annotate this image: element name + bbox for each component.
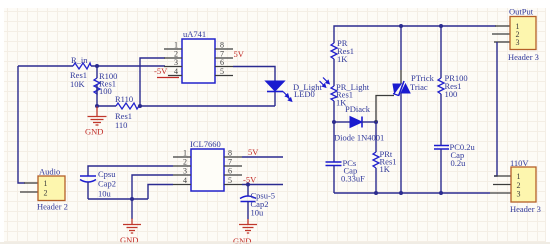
wire output to 110V pin1 bbox=[494, 42, 497, 176]
wire PRt top bbox=[375, 122, 377, 152]
resistor PR_Light photoresistor bbox=[331, 86, 337, 101]
svg-text:3: 3 bbox=[174, 58, 178, 67]
svg-text:Header 3: Header 3 bbox=[510, 204, 541, 214]
triac gate wire bbox=[376, 96, 394, 123]
svg-text:6: 6 bbox=[220, 58, 224, 67]
pin 2 line 110V bbox=[493, 184, 511, 186]
pin 4 line bbox=[168, 75, 182, 77]
wire triac MT2 bbox=[400, 26, 402, 70]
pin 7 stub bbox=[224, 165, 242, 167]
pin 6 line bbox=[215, 66, 233, 68]
pin 1 line OutPut bbox=[495, 25, 510, 27]
wire PR_Light to diode node bbox=[333, 101, 335, 162]
ground GND bottom left bbox=[131, 199, 133, 219]
pin 8 stub bbox=[215, 48, 233, 50]
svg-text:3: 3 bbox=[517, 190, 521, 199]
pin 1 line 110V bbox=[494, 175, 511, 177]
wire PRt bottom bbox=[375, 168, 377, 193]
node junction PRt bottom bbox=[374, 191, 378, 195]
pin 2 line bbox=[173, 165, 191, 167]
svg-text:10K: 10K bbox=[70, 79, 86, 89]
svg-text:Cpsu: Cpsu bbox=[98, 169, 116, 179]
resistor R_in bbox=[73, 63, 91, 69]
pin 1 stub bbox=[164, 48, 182, 50]
svg-text:Cap2: Cap2 bbox=[98, 179, 116, 189]
pin 3 line bbox=[173, 174, 191, 176]
svg-text:5V: 5V bbox=[234, 49, 245, 59]
ground GND under Cpsu-5 bbox=[239, 219, 257, 233]
svg-text:Header 2: Header 2 bbox=[37, 202, 68, 212]
pin 1 line Audio bbox=[24, 182, 38, 184]
node junction gnd bottom bbox=[130, 197, 134, 201]
svg-text:Diode 1N4001: Diode 1N4001 bbox=[334, 133, 384, 143]
svg-text:GND: GND bbox=[85, 127, 103, 137]
capacitor PCs bbox=[326, 162, 342, 193]
wire pin6 output to LED bbox=[233, 67, 275, 82]
connector 110V Header 3 bbox=[511, 167, 536, 202]
resistor R100 bbox=[94, 78, 100, 94]
node junction diode left bbox=[332, 120, 336, 124]
triac PTrick bbox=[393, 81, 410, 96]
ground GND under R100 bbox=[88, 107, 107, 126]
pin 2 line Audio bbox=[20, 191, 38, 193]
node junction -5V cap bbox=[246, 183, 250, 187]
svg-text:10u: 10u bbox=[98, 189, 112, 199]
resistor PR bbox=[331, 43, 337, 59]
svg-text:ICL7660: ICL7660 bbox=[190, 139, 221, 149]
wire PR to PR_Light bbox=[333, 59, 335, 86]
capacitor PC0.2u bbox=[434, 146, 449, 194]
svg-text:1: 1 bbox=[44, 179, 48, 188]
wire R100 top stub bbox=[96, 66, 98, 78]
wire R100 bottom to R110 bbox=[97, 105, 116, 107]
wire 5V net bbox=[242, 156, 283, 158]
svg-text:Header 3: Header 3 bbox=[508, 52, 539, 62]
wire feedback vertical to pin2 bbox=[140, 58, 165, 106]
capacitor Cpsu-5 bbox=[240, 185, 256, 220]
pin 6 stub bbox=[224, 174, 242, 176]
resistor R110 bbox=[116, 103, 139, 109]
svg-text:5: 5 bbox=[228, 176, 232, 185]
svg-text:8: 8 bbox=[220, 41, 224, 50]
capacitor Cpsu bbox=[80, 166, 173, 199]
wire bottom net Cpsu to pin4 corner bbox=[88, 198, 148, 200]
svg-text:5: 5 bbox=[220, 67, 224, 76]
svg-text:PDiack: PDiack bbox=[345, 104, 371, 114]
wire triac MT1 bbox=[400, 93, 402, 193]
svg-text:1: 1 bbox=[183, 149, 187, 158]
svg-text:R_in: R_in bbox=[71, 55, 88, 65]
svg-text:1K: 1K bbox=[380, 164, 391, 174]
svg-text:Triac: Triac bbox=[410, 82, 428, 92]
pin 1 stub bbox=[173, 156, 191, 158]
pin 2 line bbox=[164, 57, 182, 59]
svg-text:0.2u: 0.2u bbox=[451, 158, 467, 168]
IC ICL7660 body bbox=[191, 149, 224, 191]
svg-text:LED0: LED0 bbox=[294, 89, 315, 99]
svg-text:6: 6 bbox=[228, 167, 232, 176]
connector Audio Header 2 bbox=[38, 176, 65, 201]
bottom boundary shading bbox=[0, 242, 550, 244]
node junction MT1 bottom bbox=[399, 191, 403, 195]
node junction R_in/R100 bbox=[95, 64, 99, 68]
connector OutPut Header 3 bbox=[510, 17, 536, 50]
pin 7 line bbox=[215, 57, 233, 59]
svg-text:8: 8 bbox=[228, 149, 232, 158]
svg-text:GND: GND bbox=[233, 236, 251, 246]
LDR arrows onto PR_Light bbox=[320, 78, 330, 88]
wire PR100 to PC0.2u bbox=[440, 94, 442, 146]
wire -5V net bbox=[242, 184, 283, 186]
op-amp U uA741 body bbox=[182, 39, 215, 83]
node junction PC0.2u bottom bbox=[439, 191, 443, 195]
pin 5 stub bbox=[215, 75, 233, 77]
svg-text:0.33uF: 0.33uF bbox=[341, 174, 365, 184]
svg-text:OutPut: OutPut bbox=[509, 7, 534, 17]
svg-text:5V: 5V bbox=[248, 147, 259, 157]
pin 3 line OutPut bbox=[494, 41, 510, 43]
svg-text:7: 7 bbox=[228, 158, 232, 167]
pin 3 line bbox=[164, 66, 182, 68]
wire top net bbox=[334, 26, 496, 43]
svg-text:100: 100 bbox=[99, 86, 112, 96]
wire input net left segment bbox=[18, 65, 73, 67]
svg-text:3: 3 bbox=[516, 38, 520, 47]
diode PDiack bbox=[334, 117, 376, 128]
wire left vertical to Audio bbox=[18, 66, 25, 183]
svg-text:R110: R110 bbox=[115, 94, 133, 104]
svg-text:4: 4 bbox=[174, 67, 178, 76]
svg-text:110: 110 bbox=[115, 120, 127, 130]
svg-text:2: 2 bbox=[183, 158, 187, 167]
svg-text:3: 3 bbox=[183, 167, 187, 176]
wire pin3 L bbox=[132, 175, 173, 199]
wire bottom net bbox=[334, 192, 490, 194]
wire feedback bottom to LED bbox=[140, 105, 275, 107]
LED emission arrows bbox=[283, 92, 292, 102]
pin 5 line bbox=[224, 184, 242, 186]
node junction diode/gate/PRt bbox=[374, 120, 378, 124]
svg-text:10u: 10u bbox=[251, 208, 265, 218]
svg-text:-5V: -5V bbox=[243, 175, 257, 185]
pin 8 line bbox=[224, 156, 242, 158]
svg-text:1: 1 bbox=[174, 41, 178, 50]
node junction R100/R110/GND bbox=[95, 104, 99, 108]
svg-text:-5V: -5V bbox=[154, 66, 168, 76]
pin 3 line 110V bbox=[490, 192, 511, 194]
svg-text:4: 4 bbox=[183, 176, 187, 185]
node junction PR100 top bbox=[439, 24, 443, 28]
svg-text:2: 2 bbox=[44, 189, 48, 198]
pin 4 line bbox=[173, 184, 191, 186]
svg-text:1: 1 bbox=[517, 172, 521, 181]
wire R_in to pin3 bbox=[91, 65, 165, 67]
node junction triac top bbox=[399, 24, 403, 28]
wire PR100 top bbox=[440, 26, 442, 78]
resistor PR100 bbox=[438, 78, 444, 94]
LED D_Light bbox=[266, 81, 285, 106]
svg-text:110V: 110V bbox=[510, 158, 529, 168]
svg-text:100: 100 bbox=[445, 89, 458, 99]
node junction feedback R110/pin2 bbox=[138, 104, 142, 108]
svg-text:uA741: uA741 bbox=[183, 29, 206, 39]
svg-text:1K: 1K bbox=[337, 54, 348, 64]
resistor PRt bbox=[373, 152, 379, 168]
wire pin4 L bbox=[148, 185, 173, 200]
pin 2 line OutPut bbox=[492, 33, 510, 35]
svg-text:Audio: Audio bbox=[39, 167, 60, 177]
